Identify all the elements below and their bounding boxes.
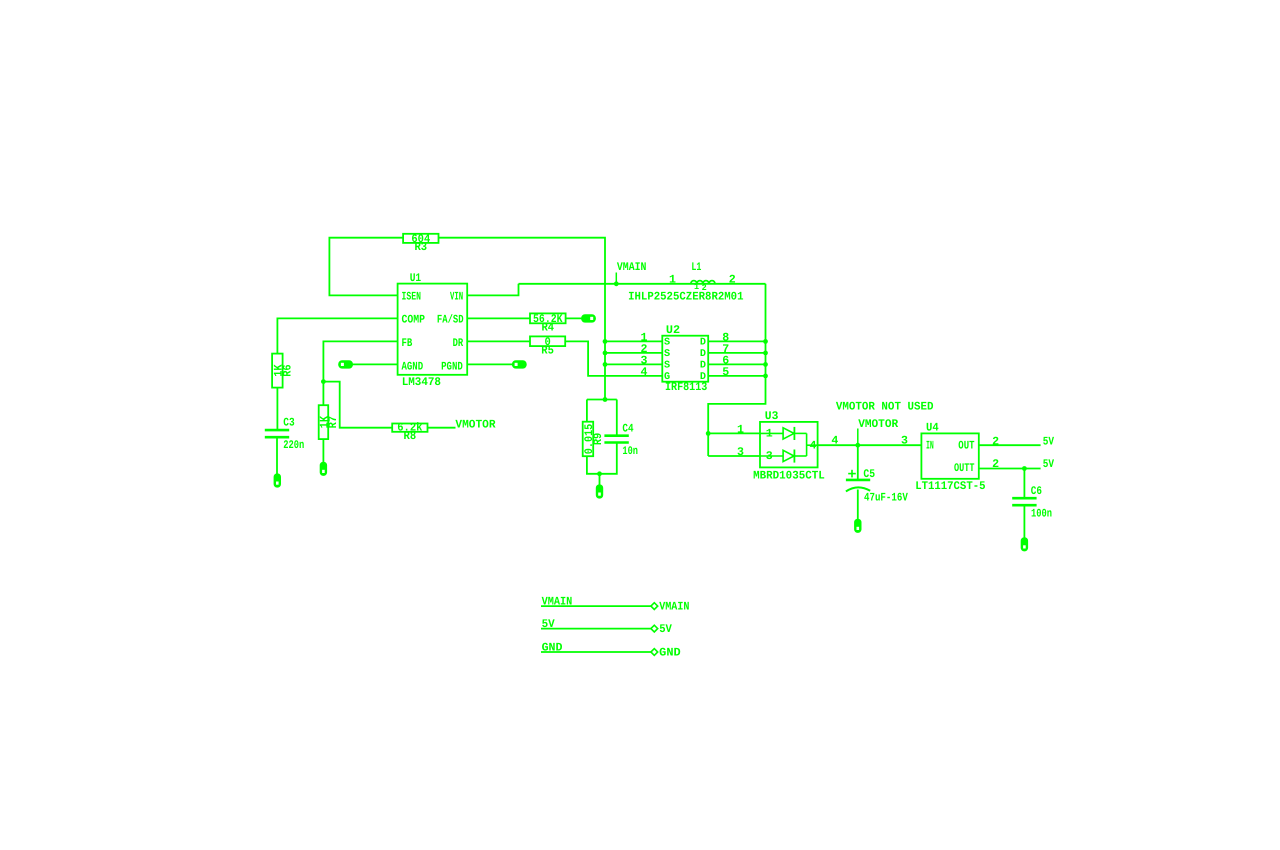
net 5V sheet pin [541, 618, 672, 636]
wire sense top [587, 399, 617, 401]
ground flag at PGND [512, 361, 526, 368]
svg-text:D: D [700, 349, 706, 360]
svg-text:1: 1 [694, 282, 699, 292]
resistor R5 0 [530, 336, 565, 357]
wire COMP to R6 [277, 318, 397, 353]
net GND sheet pin [541, 642, 681, 660]
svg-text:1: 1 [766, 427, 773, 440]
wire R5 to gate [565, 341, 662, 376]
wire C3 to ground [276, 437, 278, 474]
svg-text:5V: 5V [1043, 458, 1054, 471]
wire C6 to ground [1023, 505, 1025, 538]
IC U1 LM3478 switching controller [398, 272, 468, 389]
resistor R8 6.2k [392, 422, 427, 443]
regulator U4 LT1117CST-5 [915, 422, 985, 493]
svg-text:R3: R3 [415, 241, 428, 254]
svg-text:G: G [664, 372, 670, 383]
svg-text:4: 4 [831, 434, 838, 447]
wire AGND [353, 363, 398, 365]
junction D3 [763, 362, 768, 367]
capacitor C3 220n [265, 417, 305, 453]
svg-text:IRF8113: IRF8113 [665, 381, 707, 394]
junction S1 [603, 339, 608, 344]
svg-text:47uF-16V: 47uF-16V [864, 491, 908, 504]
ground below C5 [855, 519, 861, 532]
wire C5 to ground [857, 490, 859, 520]
svg-text:C6: C6 [1031, 485, 1042, 498]
wire VMAIN horizontal [519, 283, 766, 285]
wire R8 to VMOTOR [428, 427, 456, 429]
wire PGND [467, 363, 512, 365]
svg-text:VMOTOR NOT USED: VMOTOR NOT USED [836, 400, 934, 413]
svg-text:3: 3 [766, 450, 773, 463]
junction VMAIN [614, 281, 619, 286]
svg-text:FB: FB [402, 337, 413, 350]
svg-text:D: D [700, 372, 706, 383]
inductor L1 IHLP2525CZER8R2M01 [628, 261, 743, 303]
svg-text:VMOTOR: VMOTOR [858, 418, 898, 431]
resistor R4 56.2K [530, 313, 566, 334]
svg-text:R9: R9 [592, 433, 605, 445]
junction S2 [603, 351, 608, 356]
wire R6 to C3 [276, 388, 278, 431]
capacitor C5 47uF-16V [846, 445, 908, 504]
wire sense bottom [587, 443, 617, 474]
ground flag at AGND [339, 361, 353, 368]
ground below R7 [320, 462, 326, 475]
svg-text:U2: U2 [666, 324, 680, 337]
svg-text:5V: 5V [1043, 436, 1054, 449]
ground below C6 [1021, 538, 1027, 551]
wire OUTT to 5V [979, 468, 1041, 470]
junction sense ground [597, 471, 602, 476]
svg-text:5: 5 [722, 366, 729, 379]
junction sense node [603, 397, 608, 402]
node VMAIN label [616, 261, 646, 284]
svg-text:GND: GND [659, 646, 681, 659]
ground below C3 [274, 474, 280, 487]
svg-text:AGND: AGND [402, 360, 424, 373]
wire to U3 pin1 [708, 432, 760, 434]
svg-text:S: S [664, 337, 670, 348]
svg-text:R5: R5 [541, 344, 554, 357]
wire FB to divider [323, 341, 397, 405]
svg-text:D: D [700, 337, 706, 348]
capacitor C4 10n [604, 423, 638, 458]
net VMAIN sheet pin [541, 596, 690, 614]
svg-text:U4: U4 [926, 422, 939, 435]
wire to U3 pin3 [708, 455, 760, 457]
svg-text:3: 3 [901, 434, 908, 447]
junction diode node [706, 431, 711, 436]
wire divider to R8 [323, 382, 392, 428]
svg-text:R6: R6 [281, 364, 294, 376]
svg-text:4: 4 [810, 439, 817, 452]
svg-text:DR: DR [453, 337, 464, 350]
svg-text:VIN: VIN [450, 291, 463, 304]
diode pack U3 MBRD1035CTL [737, 410, 825, 483]
wire to C6 [1023, 469, 1025, 499]
svg-text:10n: 10n [622, 445, 638, 458]
svg-text:S: S [664, 360, 670, 371]
svg-text:2: 2 [729, 274, 736, 287]
svg-text:U1: U1 [410, 272, 422, 285]
svg-text:R8: R8 [404, 430, 417, 443]
junction VMOTOR [855, 443, 860, 448]
svg-text:OUTT: OUTT [954, 462, 975, 475]
svg-text:IN: IN [926, 440, 934, 453]
wire VIN to VMAIN [467, 284, 518, 296]
svg-text:220n: 220n [283, 439, 304, 452]
svg-text:LM3478: LM3478 [402, 376, 441, 389]
capacitor C6 100n [1012, 485, 1052, 521]
wire L1 pin2 down to drains [708, 284, 765, 456]
svg-text:MBRD1035CTL: MBRD1035CTL [753, 469, 825, 482]
wire R4 to ground flag [566, 317, 582, 319]
svg-text:C5: C5 [863, 468, 875, 481]
svg-text:D: D [700, 360, 706, 371]
svg-text:3: 3 [737, 446, 744, 459]
junction D2 [763, 351, 768, 356]
svg-text:PGND: PGND [441, 360, 463, 373]
svg-text:S: S [664, 349, 670, 360]
ground below R9/C4 [596, 485, 602, 498]
junction C6 [1022, 466, 1027, 471]
svg-text:C4: C4 [622, 423, 633, 436]
wire R3 to switch node [439, 238, 606, 400]
wire source rows [605, 340, 662, 342]
svg-text:2: 2 [992, 435, 999, 448]
svg-text:VMOTOR: VMOTOR [455, 419, 495, 432]
svg-text:1: 1 [669, 274, 676, 287]
svg-text:COMP: COMP [402, 314, 426, 327]
svg-text:LT1117CST-5: LT1117CST-5 [915, 480, 985, 493]
junction S3 [603, 362, 608, 367]
svg-text:2: 2 [992, 458, 999, 471]
svg-text:U3: U3 [765, 410, 779, 423]
svg-text:IHLP2525CZER8R2M01: IHLP2525CZER8R2M01 [628, 290, 743, 303]
wire R7 to ground [322, 439, 324, 462]
wire DR to R5 [467, 340, 530, 342]
wire OUT to 5V [979, 444, 1041, 446]
svg-text:VMAIN: VMAIN [617, 261, 647, 274]
svg-text:2: 2 [702, 283, 707, 293]
junction D4 [763, 374, 768, 379]
wire to ground [599, 474, 601, 485]
junction D1 [763, 339, 768, 344]
svg-text:OUT: OUT [958, 440, 974, 453]
ground flag at R4 [582, 315, 596, 322]
svg-text:FA/SD: FA/SD [437, 314, 464, 327]
wire FA/SD to R4 [467, 317, 530, 319]
resistor R3 604 [403, 233, 438, 254]
junction FB divider [321, 379, 326, 384]
svg-text:4: 4 [641, 366, 648, 379]
svg-text:VMAIN: VMAIN [659, 601, 689, 614]
svg-text:5V: 5V [659, 623, 672, 636]
wire ISEN to R3 [329, 238, 403, 296]
node VMOTOR label [858, 418, 898, 445]
svg-text:L1: L1 [691, 261, 701, 274]
resistor R7 1K [318, 405, 339, 439]
resistor R9 0.015 [583, 422, 605, 457]
resistor R6 1K [272, 354, 294, 388]
svg-text:100n: 100n [1031, 507, 1052, 520]
svg-text:R4: R4 [542, 322, 555, 335]
wire U3 out to U4 [818, 444, 922, 446]
svg-text:R7: R7 [327, 416, 340, 428]
transistor U2 IRF8113 dual MOSFET [641, 324, 730, 394]
svg-text:ISEN: ISEN [402, 291, 422, 304]
svg-text:1: 1 [737, 423, 744, 436]
wire drain rows [708, 340, 765, 342]
svg-text:C3: C3 [283, 417, 294, 430]
